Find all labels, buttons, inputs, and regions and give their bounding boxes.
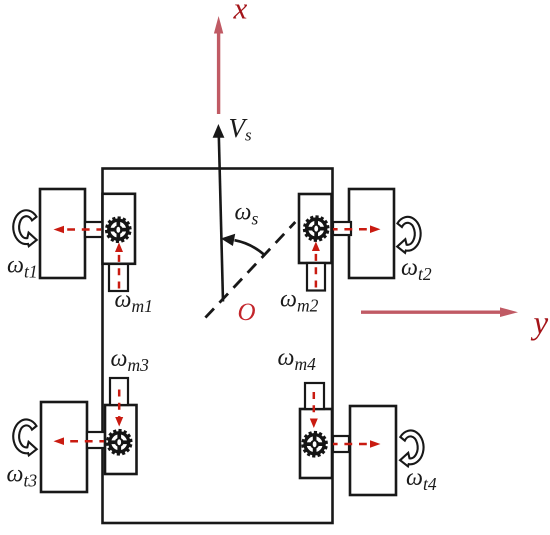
svg-text:O: O — [238, 299, 256, 326]
svg-text:y: y — [531, 306, 549, 342]
svg-text:x: x — [233, 0, 248, 26]
